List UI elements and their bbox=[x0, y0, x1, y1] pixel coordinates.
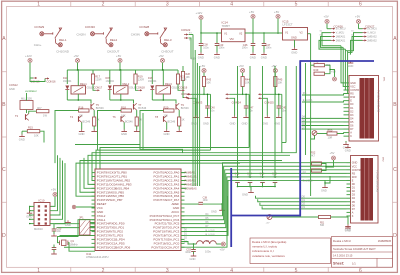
svg-text:K: K bbox=[350, 135, 352, 138]
svg-text:V1: V1 bbox=[224, 32, 228, 36]
svg-text:GND: GND bbox=[321, 188, 327, 192]
capacitor C43 100n bbox=[216, 33, 218, 43]
svg-text:10p: 10p bbox=[235, 174, 240, 178]
svg-text:120R: 120R bbox=[180, 78, 186, 82]
svg-text:D: D bbox=[393, 233, 397, 239]
svg-text:CON25: CON25 bbox=[264, 100, 274, 104]
svg-text:A: A bbox=[393, 36, 397, 42]
+12V supply bbox=[199, 15, 203, 19]
svg-text:CON28: CON28 bbox=[139, 25, 149, 29]
section divider blue line right vertical bbox=[299, 60, 301, 216]
ground C56 bbox=[53, 252, 55, 254]
wire ADC caps join bbox=[238, 186, 276, 188]
ground sensor connector bbox=[230, 98, 235, 115]
svg-text:GND: GND bbox=[345, 149, 351, 153]
svg-text:GND: GND bbox=[214, 56, 220, 60]
ground second transistor bbox=[81, 129, 83, 131]
ISP right pin wires bbox=[50, 155, 58, 210]
svg-text:D4: D4 bbox=[350, 117, 354, 120]
ISP header IC10 MLW10 bbox=[34, 203, 50, 226]
svg-text:(E_LCD2): (E_LCD2) bbox=[205, 230, 215, 232]
svg-text:GND: GND bbox=[191, 122, 197, 126]
svg-text:BC546: BC546 bbox=[168, 121, 176, 124]
wire coil bottom to transistor bbox=[77, 94, 79, 100]
svg-text:R49: R49 bbox=[314, 68, 319, 72]
varistor MLL2105 bbox=[20, 101, 33, 110]
resistor R28 10K bbox=[181, 72, 184, 81]
svg-text:R50: R50 bbox=[328, 129, 333, 133]
svg-text:+5V: +5V bbox=[331, 70, 336, 74]
wire second transistor ground bbox=[166, 122, 168, 129]
svg-text:1K: 1K bbox=[139, 119, 142, 122]
ground relay emitter 1 bbox=[93, 129, 95, 131]
svg-text:16MHz: 16MHz bbox=[70, 242, 79, 246]
svg-text:+5V: +5V bbox=[324, 15, 329, 19]
wire coil top bbox=[77, 70, 79, 86]
voltage regulator IC14 7805T bbox=[222, 29, 246, 42]
title block dividers bbox=[332, 246, 393, 267]
wire sensor data drop bbox=[281, 94, 283, 152]
svg-text:1MEAS2: 1MEAS2 bbox=[367, 36, 377, 39]
svg-text:D1: D1 bbox=[302, 198, 306, 202]
svg-text:VCC: VCC bbox=[352, 165, 357, 168]
+12V supply fan bbox=[28, 58, 32, 62]
wire coil top bbox=[120, 70, 122, 86]
svg-text:D4: D4 bbox=[352, 197, 356, 200]
ground below C47 bbox=[263, 52, 265, 54]
relay contact REL1 bbox=[55, 28, 63, 47]
svg-text:PCINT30/OC2B/ICP_PD6: PCINT30/OC2B/ICP_PD6 bbox=[97, 245, 131, 249]
svg-text:2MEAS2: 2MEAS2 bbox=[367, 39, 377, 42]
svg-text:RS: RS bbox=[303, 91, 307, 95]
svg-text:1N4004: 1N4004 bbox=[63, 80, 72, 83]
svg-text:GND: GND bbox=[65, 223, 71, 227]
wire ISP supply bbox=[50, 197, 55, 207]
svg-text:5V_MCU: 5V_MCU bbox=[367, 28, 377, 31]
svg-text:2MEAS1: 2MEAS1 bbox=[336, 39, 346, 42]
svg-text:REL2: REL2 bbox=[123, 82, 130, 86]
svg-text:D0: D0 bbox=[302, 195, 306, 199]
svg-text:GND: GND bbox=[345, 228, 351, 232]
LCD1 pin stubs bbox=[344, 82, 350, 84]
svg-text:Deska s MCU: Deska s MCU bbox=[333, 239, 351, 243]
svg-text:GND: GND bbox=[203, 122, 209, 126]
svg-text:+5V: +5V bbox=[271, 64, 276, 68]
wire fan supply bbox=[30, 63, 33, 79]
svg-text:CH3IN: CH3IN bbox=[131, 33, 140, 37]
wire coil bottom to transistor bbox=[162, 94, 164, 100]
ground second transistor bbox=[123, 129, 125, 131]
wire emitter resistor to ground bbox=[93, 126, 95, 130]
svg-text:4K7: 4K7 bbox=[37, 106, 42, 110]
bus wire stepped bbox=[75, 66, 296, 153]
svg-text:100n: 100n bbox=[185, 250, 191, 254]
svg-text:R16: R16 bbox=[79, 106, 84, 110]
+5V supply LCD1 bbox=[333, 77, 337, 81]
svg-text:C: C bbox=[2, 167, 6, 173]
base resistor R20 bbox=[164, 109, 175, 112]
svg-text:GND: GND bbox=[242, 193, 248, 197]
connector CON28 bbox=[145, 32, 158, 36]
svg-text:T8: T8 bbox=[155, 115, 159, 119]
svg-text:+5V: +5V bbox=[239, 64, 244, 68]
svg-text:10p: 10p bbox=[248, 174, 253, 178]
voltage regulator IC15 LF33CT bbox=[283, 28, 308, 41]
capacitor C49 10n bbox=[278, 94, 280, 105]
svg-text:1N4004: 1N4004 bbox=[148, 80, 157, 83]
+5V supply at CON27 bbox=[356, 19, 360, 23]
wire +12V to regulator bbox=[201, 20, 222, 34]
svg-text:REL3: REL3 bbox=[165, 82, 172, 86]
svg-text:R/W: R/W bbox=[352, 176, 358, 179]
wire varistor bbox=[26, 93, 28, 101]
ground fan bbox=[21, 131, 23, 134]
wire relay supply rail bbox=[77, 63, 79, 71]
svg-text:B: B bbox=[393, 102, 397, 108]
svg-text:E_LCD1: E_LCD1 bbox=[303, 98, 313, 102]
ground relay emitter 3 bbox=[178, 129, 180, 131]
wire emitter resistor to ground bbox=[136, 126, 138, 130]
capacitor C42 10p bbox=[235, 180, 240, 182]
resistor R15 10K bbox=[27, 130, 40, 133]
relay contact REL2 bbox=[106, 28, 114, 47]
microcontroller IC11 ATMEGA644-20PU bbox=[95, 169, 181, 251]
wire base resistor to bus bbox=[55, 111, 79, 164]
svg-text:RS: RS bbox=[352, 172, 356, 175]
svg-text:GND: GND bbox=[230, 122, 236, 126]
+5V supply at regulator bbox=[251, 14, 255, 18]
svg-text:CON30: CON30 bbox=[85, 25, 95, 29]
+5V supply relay 3 bbox=[160, 58, 164, 62]
svg-text:+5V: +5V bbox=[249, 10, 254, 14]
svg-text:A: A bbox=[350, 132, 352, 135]
svg-text:4K7: 4K7 bbox=[311, 154, 316, 157]
svg-text:D3: D3 bbox=[352, 194, 356, 197]
svg-text:GND: GND bbox=[262, 122, 268, 126]
svg-text:BC546: BC546 bbox=[83, 121, 91, 124]
LCD display DIS2 TUXGR_16X2_R2 bbox=[351, 156, 379, 224]
svg-text:CH3OUT: CH3OUT bbox=[161, 49, 174, 53]
svg-text:+12V: +12V bbox=[196, 11, 203, 15]
svg-text:10K: 10K bbox=[206, 81, 211, 85]
svg-text:5: 5 bbox=[295, 268, 298, 274]
connector CON25 bbox=[258, 93, 262, 95]
wires LCD2 power bbox=[310, 163, 313, 165]
svg-text:D5: D5 bbox=[350, 121, 354, 124]
ground below IC15 bbox=[294, 40, 296, 48]
svg-text:CH2OUT: CH2OUT bbox=[107, 49, 120, 53]
svg-text:+5V: +5V bbox=[355, 15, 360, 19]
svg-text:6: 6 bbox=[359, 2, 362, 8]
diode D16 1N4004 bbox=[150, 86, 154, 90]
transistor second BC546 bbox=[79, 116, 82, 123]
svg-text:+5V: +5V bbox=[51, 188, 56, 192]
+5V supply sensor 1 bbox=[202, 69, 206, 73]
+5V supply AVCC bbox=[221, 242, 225, 246]
svg-text:1N4004: 1N4004 bbox=[106, 80, 115, 83]
svg-text:R20: R20 bbox=[164, 106, 169, 110]
wires trimmer LCD1 bbox=[317, 133, 327, 135]
wires trimmer LCD2 bbox=[272, 216, 319, 218]
MCU right data wires to LCD2 upper bbox=[181, 163, 347, 216]
svg-text:CON12: CON12 bbox=[9, 83, 18, 87]
svg-text:10R: 10R bbox=[328, 136, 333, 140]
emitter resistor 1K bbox=[178, 117, 181, 126]
transistor T5 BC546 bbox=[91, 103, 94, 110]
capacitor C40 10n bbox=[207, 94, 209, 105]
svg-text:3: 3 bbox=[166, 268, 169, 274]
annotation box bbox=[250, 238, 331, 264]
ground below C46 bbox=[252, 52, 254, 54]
wire R15 bbox=[22, 130, 27, 132]
svg-text:G5LE: G5LE bbox=[87, 86, 94, 90]
svg-text:GND: GND bbox=[347, 64, 353, 68]
svg-text:D: D bbox=[2, 233, 6, 239]
ground LCD1 bottom bbox=[345, 141, 347, 143]
svg-text:MLW10: MLW10 bbox=[34, 227, 43, 231]
ground LCD2 bottom bbox=[347, 224, 349, 226]
LCD display DIS1 TUXGR_16X2_R2 bbox=[349, 76, 379, 142]
svg-text:10K: 10K bbox=[278, 81, 283, 85]
wires from CON26 bbox=[326, 24, 328, 29]
svg-text:10K: 10K bbox=[34, 134, 39, 138]
resistor R19 120R bbox=[134, 74, 137, 84]
section divider blue line bottom horizontal bbox=[231, 215, 301, 217]
svg-text:V2: V2 bbox=[300, 31, 304, 35]
svg-text:V1: V1 bbox=[285, 31, 289, 35]
svg-text:100u: 100u bbox=[203, 46, 209, 49]
svg-text:100n: 100n bbox=[219, 46, 225, 50]
resistor R44 10K bbox=[242, 73, 244, 77]
svg-text:DIS1: DIS1 bbox=[383, 77, 385, 82]
svg-text:14.3.2016 23:15: 14.3.2016 23:15 bbox=[333, 253, 353, 257]
ground LCD1 top bbox=[350, 61, 352, 63]
svg-text:+5V: +5V bbox=[266, 223, 270, 225]
resistor R49 bbox=[314, 72, 325, 75]
svg-text:V_MCU: V_MCU bbox=[367, 32, 376, 35]
base resistor R16 bbox=[79, 109, 90, 112]
svg-text:CH2IN: CH2IN bbox=[77, 33, 86, 37]
svg-text:GND: GND bbox=[79, 132, 85, 136]
+5V supply sensor 2 bbox=[241, 69, 245, 73]
svg-text:D0: D0 bbox=[352, 183, 356, 186]
svg-text:6: 6 bbox=[359, 268, 362, 274]
svg-text:V2: V2 bbox=[239, 32, 243, 36]
svg-text:GND: GND bbox=[250, 56, 256, 60]
wire base resistor to bus bbox=[98, 111, 122, 151]
MCU pin labels left bbox=[97, 171, 132, 250]
svg-text:1W: 1W bbox=[43, 114, 47, 118]
wires from CON27 bbox=[358, 24, 360, 29]
svg-text:CON22: CON22 bbox=[181, 28, 191, 32]
annotation text bbox=[252, 240, 286, 258]
svg-text:CON18: CON18 bbox=[136, 85, 145, 89]
svg-text:R18: R18 bbox=[121, 106, 126, 110]
transistor second BC546 bbox=[164, 116, 167, 123]
svg-text:CON29: CON29 bbox=[34, 25, 44, 29]
svg-text:CH1+: CH1+ bbox=[34, 43, 42, 47]
connector CON24 bbox=[226, 93, 230, 95]
wire crystal to MCU XTAL2 bbox=[68, 243, 95, 252]
resistor R21 120R bbox=[176, 74, 179, 84]
svg-text:D2: D2 bbox=[184, 237, 188, 239]
svg-text:120R: 120R bbox=[95, 78, 101, 82]
svg-text:GND: GND bbox=[198, 56, 204, 60]
svg-text:DIS2: DIS2 bbox=[382, 157, 384, 162]
svg-text:CON24: CON24 bbox=[232, 100, 242, 104]
svg-text:GND: GND bbox=[291, 35, 297, 39]
svg-text:D2: D2 bbox=[352, 190, 356, 193]
wire second transistor ground bbox=[123, 122, 125, 129]
svg-text:Svoboda Tomas 164408 HUT FEKT: Svoboda Tomas 164408 HUT FEKT bbox=[333, 247, 376, 251]
svg-text:D6: D6 bbox=[352, 204, 356, 207]
wire CON22 to bus bbox=[189, 34, 194, 36]
svg-text:D2: D2 bbox=[302, 202, 306, 206]
ground sensor connector bbox=[262, 98, 267, 115]
capacitor C44 10p bbox=[248, 180, 253, 182]
svg-text:RS: RS bbox=[350, 93, 354, 96]
capacitor C53 100n bbox=[193, 244, 195, 250]
svg-text:4: 4 bbox=[230, 268, 233, 274]
relay contact REL3 bbox=[160, 28, 168, 47]
svg-text:5V_MCU: 5V_MCU bbox=[336, 28, 346, 31]
emitter resistor 1K bbox=[93, 117, 96, 126]
svg-text:GND: GND bbox=[26, 215, 32, 219]
ground C53 bbox=[193, 254, 195, 256]
svg-text:GND: GND bbox=[242, 122, 248, 126]
connector CON18 bbox=[136, 84, 139, 90]
wire coil top bbox=[162, 70, 164, 86]
svg-text:CON17: CON17 bbox=[94, 85, 103, 89]
svg-text:B: B bbox=[2, 102, 6, 108]
vertical bus right of MCU bbox=[192, 35, 194, 187]
svg-text:REL1: REL1 bbox=[80, 82, 87, 86]
svg-text:C: C bbox=[393, 167, 397, 173]
section divider blue line top horizontal bbox=[300, 60, 374, 62]
wires LCD1 power bbox=[311, 64, 314, 66]
svg-text:CONMEAS: CONMEAS bbox=[185, 187, 197, 190]
svg-text:5: 5 bbox=[295, 2, 298, 8]
svg-text:D1: D1 bbox=[352, 187, 356, 190]
ground C55 bbox=[53, 234, 55, 236]
svg-text:GND: GND bbox=[9, 87, 15, 91]
svg-text:+5V: +5V bbox=[159, 54, 164, 58]
svg-text:1: 1 bbox=[37, 2, 40, 8]
wire fan transistor bbox=[29, 111, 37, 113]
svg-text:GND: GND bbox=[261, 56, 267, 60]
connector CON30 bbox=[91, 32, 104, 36]
ISP left pin wires bbox=[30, 205, 35, 207]
resistor R45 10K bbox=[274, 73, 276, 77]
svg-text:2: 2 bbox=[102, 268, 105, 274]
emitter resistor 1K bbox=[135, 117, 138, 126]
inductor L2 100u bbox=[197, 241, 217, 244]
wire emitter resistor to ground bbox=[178, 126, 180, 130]
wire regulator output bbox=[245, 32, 283, 34]
ground below C38 bbox=[200, 52, 202, 54]
wire R28 to CON21 bbox=[183, 81, 184, 98]
+5V supply ISP bbox=[53, 192, 57, 196]
svg-text:ATMEGA644-20PU: ATMEGA644-20PU bbox=[86, 255, 109, 259]
transistor second BC546 bbox=[121, 116, 124, 123]
relay coil REL3 G5LE bbox=[156, 86, 171, 94]
resistor R51 50R bbox=[319, 215, 331, 218]
MCU lower left pin wires bbox=[55, 223, 95, 225]
wire relay supply rail bbox=[162, 63, 164, 71]
ground AREF cap bbox=[221, 208, 223, 210]
+5V supply second bbox=[276, 14, 280, 18]
svg-text:R/W: R/W bbox=[350, 96, 356, 99]
svg-text:G5LE: G5LE bbox=[129, 86, 136, 90]
ground LCD2 mid bbox=[324, 180, 326, 186]
capacitor C38b 100n AREF bbox=[185, 203, 200, 205]
svg-text:GND: GND bbox=[350, 82, 356, 85]
svg-text:GND: GND bbox=[211, 209, 217, 213]
svg-text:BC546: BC546 bbox=[125, 121, 133, 124]
trimmer R50 contrast LCD1 bbox=[312, 131, 317, 136]
svg-text:E: E bbox=[352, 179, 354, 182]
svg-text:D6: D6 bbox=[350, 125, 354, 128]
svg-text:E: E bbox=[350, 100, 352, 103]
svg-text:GND: GND bbox=[291, 51, 297, 55]
svg-text:+5V: +5V bbox=[200, 64, 205, 68]
ground sensor cap bbox=[278, 115, 280, 117]
capacitor C48 10p bbox=[273, 180, 278, 182]
svg-text:7805T: 7805T bbox=[222, 24, 231, 28]
wire jumper to MCU bbox=[90, 222, 95, 224]
resistor R14 4K7 bbox=[36, 110, 49, 113]
wire base resistor to bus bbox=[140, 111, 164, 148]
svg-text:100u: 100u bbox=[205, 249, 211, 253]
title block box bbox=[332, 237, 393, 268]
wire L2 to +5V bbox=[216, 243, 221, 245]
resistor R43 10K bbox=[203, 73, 205, 77]
svg-text:L2: L2 bbox=[206, 239, 209, 243]
svg-text:D5: D5 bbox=[352, 201, 356, 204]
svg-text:PCINT31/OC2A_PD7: PCINT31/OC2A_PD7 bbox=[151, 245, 179, 249]
svg-text:REL1: REL1 bbox=[59, 38, 67, 42]
svg-text:100n: 100n bbox=[266, 46, 272, 50]
svg-text:VM: VM bbox=[230, 37, 235, 41]
section divider blue line left vertical bbox=[230, 168, 232, 247]
svg-text:1K: 1K bbox=[182, 119, 185, 122]
MCU pin stubs bbox=[92, 173, 185, 248]
svg-text:R15: R15 bbox=[28, 126, 33, 130]
svg-text:100n: 100n bbox=[242, 46, 248, 50]
wire second transistor ground bbox=[81, 122, 83, 129]
wire sensor data bbox=[274, 87, 276, 95]
+5V supply at CON26 bbox=[325, 19, 329, 23]
+5V supply LCD2 bbox=[332, 156, 336, 160]
svg-text:D3: D3 bbox=[350, 114, 354, 117]
svg-text:BC546: BC546 bbox=[96, 106, 104, 110]
bus wire A vertical bbox=[285, 66, 287, 143]
svg-text:GND: GND bbox=[164, 132, 170, 136]
svg-text:V_MCU: V_MCU bbox=[336, 32, 345, 35]
svg-text:GND: GND bbox=[121, 132, 127, 136]
wire sensor data bbox=[203, 87, 205, 95]
resistor R48 bbox=[314, 64, 325, 67]
wire sensor data drop bbox=[210, 94, 212, 150]
ground relay emitter 2 bbox=[136, 129, 138, 131]
svg-text:CH1GND: CH1GND bbox=[56, 49, 70, 53]
svg-text:CONTR: CONTR bbox=[350, 89, 359, 92]
resistor R17 120R bbox=[91, 74, 94, 84]
svg-text:2: 2 bbox=[102, 2, 105, 8]
wire sensor data bbox=[242, 87, 244, 95]
svg-text:D7: D7 bbox=[352, 208, 356, 211]
wire coil bottom to transistor bbox=[120, 94, 122, 100]
